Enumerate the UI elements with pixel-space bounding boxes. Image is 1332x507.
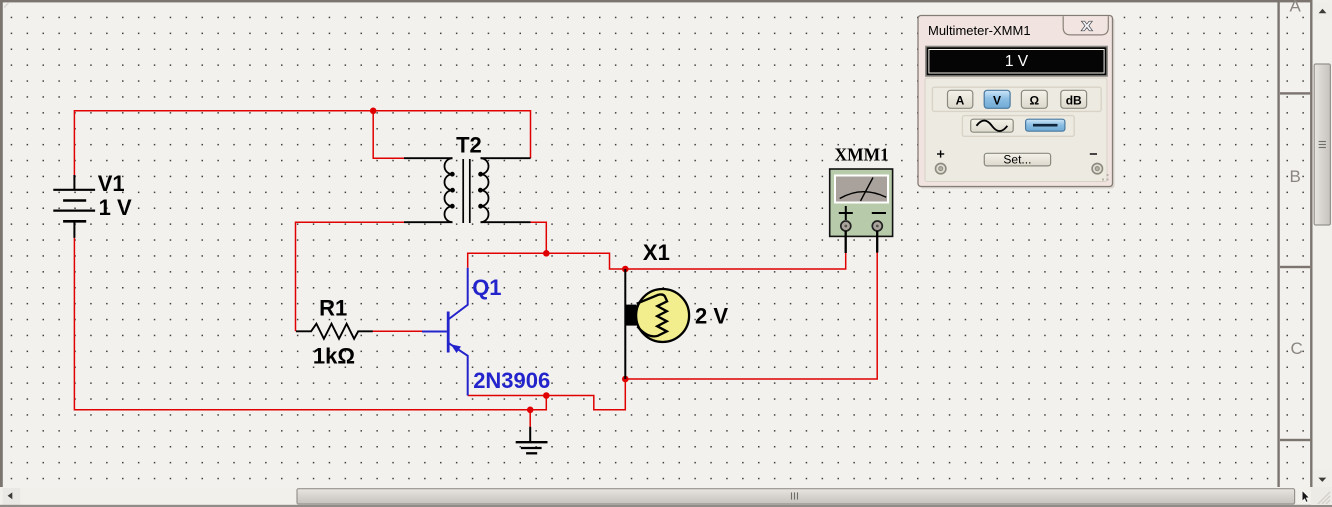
svg-text:2N3906: 2N3906 xyxy=(473,368,550,393)
node E junction xyxy=(527,407,534,414)
svg-text:A: A xyxy=(1290,0,1302,16)
svg-text:X: X xyxy=(1082,19,1093,34)
scrollbar corner xyxy=(1311,487,1332,505)
wire: ground stub xyxy=(529,410,531,427)
mode buttons groove xyxy=(932,87,1101,111)
resistor R1 xyxy=(296,324,373,339)
multimeter icon XMM1 xyxy=(830,169,893,253)
node B junction xyxy=(543,250,550,257)
svg-text:2 V: 2 V xyxy=(695,304,728,329)
ground xyxy=(516,427,548,454)
wire: Q1 emitter to lamp node D xyxy=(468,379,626,410)
wire: node B to Q1 collector xyxy=(468,253,547,267)
svg-text:Q1: Q1 xyxy=(472,275,501,300)
wire: transformer secondary bottom to node B xyxy=(531,222,547,253)
svg-text:V: V xyxy=(993,94,1001,108)
svg-text:XMM1: XMM1 xyxy=(835,145,889,165)
svg-text:1kΩ: 1kΩ xyxy=(313,344,355,369)
svg-text:Set...: Set... xyxy=(1003,152,1031,166)
wire: transformer primary bottom to R1 xyxy=(296,222,405,331)
mouse cursor xyxy=(1302,490,1309,502)
node C junction xyxy=(622,266,629,273)
panel xyxy=(925,78,1107,182)
resize grip xyxy=(1102,174,1109,181)
wire: battery bottom return rail xyxy=(74,238,546,410)
window frame xyxy=(0,0,1332,2)
svg-text:dB: dB xyxy=(1066,94,1082,108)
transformer T2 xyxy=(404,158,531,223)
plus terminal xyxy=(937,153,944,155)
Q1 emitter arrow xyxy=(451,344,461,353)
node A junction xyxy=(370,108,377,115)
wire: node B to lamp node C xyxy=(546,253,625,269)
horizontal scrollbar xyxy=(0,487,1311,506)
node D junction xyxy=(622,376,629,383)
vertical scrollbar xyxy=(1313,0,1332,487)
battery V1 xyxy=(53,175,95,238)
ruler column xyxy=(1277,2,1279,487)
set button xyxy=(984,153,1050,166)
wave buttons groove xyxy=(962,116,1074,137)
svg-text:1 V: 1 V xyxy=(99,195,132,220)
svg-text:T2: T2 xyxy=(456,133,482,158)
svg-text:Ω: Ω xyxy=(1029,94,1039,108)
page corner mark xyxy=(4,3,9,8)
minus terminal xyxy=(1090,153,1097,155)
wire: lamp node D to multimeter minus lead xyxy=(625,252,877,379)
svg-text:B: B xyxy=(1290,167,1301,186)
svg-text:X1: X1 xyxy=(643,240,670,265)
svg-text:1 V: 1 V xyxy=(1005,53,1029,70)
display xyxy=(926,47,1107,77)
multimeter dialog window xyxy=(918,16,1115,189)
transistor Q1 (PNP 2N3906) xyxy=(422,268,468,396)
svg-text:Multimeter-XMM1: Multimeter-XMM1 xyxy=(928,23,1031,38)
lamp X1 xyxy=(624,269,626,379)
wire: battery top to transformer (top net) xyxy=(74,111,530,175)
wire: R1 to Q1 base xyxy=(372,330,422,332)
wire: junction A drop to transformer primary top xyxy=(373,111,404,158)
wire: lamp node C to multimeter plus lead xyxy=(625,253,845,269)
svg-text:R1: R1 xyxy=(319,296,347,321)
node F junction xyxy=(543,392,550,399)
svg-text:C: C xyxy=(1291,339,1303,358)
svg-text:A: A xyxy=(956,94,965,108)
svg-text:V1: V1 xyxy=(98,171,125,196)
